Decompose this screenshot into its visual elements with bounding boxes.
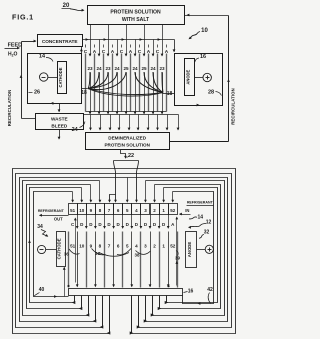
- svg-text:26: 26: [34, 90, 40, 96]
- svg-text:25: 25: [123, 66, 129, 71]
- wire: product line 22 to bottom unit: [121, 150, 127, 159]
- svg-text:12: 12: [206, 219, 212, 225]
- svg-text:RECIRCULATION: RECIRCULATION: [230, 88, 235, 125]
- enclosure: anode compartment: [175, 54, 223, 107]
- svg-text:24: 24: [96, 66, 102, 71]
- wires: concentrate feed arrows into compartments: [98, 40, 155, 57]
- label 18 (left): [81, 90, 87, 96]
- enclosure: cathode compartment: [28, 54, 82, 105]
- box: concentrate: [38, 35, 83, 47]
- svg-text:23: 23: [159, 66, 165, 71]
- junction dot right of manifold: [167, 285, 169, 287]
- svg-text:REFRIGERANT: REFRIGERANT: [38, 209, 65, 213]
- wire: right recirculation riser: [227, 16, 230, 142]
- wire: catholyte return up into cell 51: [74, 218, 77, 283]
- wire: riser into cathode box bottom: [63, 267, 66, 297]
- label 26 with leader: [29, 90, 41, 96]
- wire: membrane end bus: [86, 111, 167, 113]
- box: protein solution with salt: [88, 6, 185, 25]
- svg-text:4: 4: [135, 244, 138, 249]
- label 38: [135, 253, 140, 258]
- svg-text:9: 9: [90, 244, 93, 249]
- wire: recirculation return into protein box (right): [185, 14, 229, 17]
- svg-text:CATHODE: CATHODE: [57, 238, 62, 259]
- svg-text:14: 14: [39, 54, 46, 60]
- svg-text:10: 10: [201, 28, 208, 34]
- svg-text:16: 16: [200, 54, 206, 60]
- svg-text:6: 6: [117, 244, 120, 249]
- svg-text:40: 40: [39, 287, 45, 293]
- svg-text:H2O: H2O: [8, 52, 18, 58]
- svg-text:16: 16: [188, 289, 194, 295]
- bottom manifold box: [69, 289, 183, 296]
- label FEED H2O: [8, 43, 22, 58]
- svg-text:38: 38: [135, 253, 140, 258]
- label 36 (middle): [95, 251, 100, 256]
- wire: recirculation into waste bleed: [22, 118, 36, 120]
- label 16 with leader (top): [195, 54, 206, 62]
- winding flow arrow (left side): [28, 240, 31, 243]
- label REFRIGERANT OUT with arrow: [38, 209, 69, 221]
- wire: waste outlet arrow: [58, 130, 61, 140]
- svg-text:2: 2: [153, 244, 156, 249]
- label 12 with squiggle (unit designator): [188, 219, 211, 228]
- svg-text:24: 24: [114, 66, 120, 71]
- wires: winding downturns onto cell tops: [71, 178, 174, 203]
- svg-text:BLEED: BLEED: [51, 123, 68, 128]
- wire: cathode lead: [48, 77, 58, 79]
- label 16 with leader (bottom): [184, 289, 194, 295]
- svg-text:8: 8: [99, 244, 102, 249]
- label 20 with leader to feed arrow: [62, 3, 85, 11]
- svg-text:PROTEIN SOLUTION: PROTEIN SOLUTION: [104, 143, 150, 148]
- electrode box CATHODE (bottom): [57, 232, 66, 267]
- svg-text:18: 18: [167, 91, 173, 97]
- wire: feed arrow: [5, 47, 21, 50]
- label 40 with leader: [34, 287, 44, 296]
- label 14 with squiggle (bottom): [189, 214, 203, 220]
- svg-text:34: 34: [37, 224, 43, 230]
- wire: anode lead: [195, 77, 204, 79]
- svg-text:FIG.1: FIG.1: [12, 13, 34, 22]
- label RECIRCULATION (right): [230, 88, 235, 125]
- label REFRIGERANT IN with arrow: [179, 200, 214, 215]
- svg-text:14: 14: [198, 214, 204, 220]
- svg-text:42: 42: [207, 287, 213, 293]
- box: demineralized protein solution: [86, 133, 170, 150]
- wires: protein feed drops with arrows into compartments: [86, 25, 164, 57]
- svg-text:28: 28: [208, 90, 214, 96]
- svg-text:36: 36: [64, 252, 69, 257]
- wire: bottom anode lead: [197, 249, 206, 251]
- svg-text:36: 36: [95, 251, 100, 256]
- terminal circle plus (top anode): [203, 73, 211, 81]
- svg-text:32: 32: [204, 230, 210, 236]
- wire: left recirculation loop: [20, 40, 37, 119]
- svg-text:ANODE: ANODE: [186, 70, 191, 85]
- wires: compartment outlet lines to bus: [89, 73, 164, 115]
- svg-text:IN: IN: [185, 208, 189, 213]
- svg-text:RECIRCULATION: RECIRCULATION: [7, 90, 12, 127]
- svg-text:51: 51: [70, 244, 76, 249]
- compartment numbers 23/24/25: [87, 66, 165, 71]
- label 28 with leader: [208, 90, 222, 96]
- svg-text:PROTEIN SOLUTION: PROTEIN SOLUTION: [110, 9, 161, 15]
- svg-text:DEMINERALIZED: DEMINERALIZED: [108, 136, 146, 141]
- label 34 with zigzag leader: [37, 224, 49, 238]
- svg-text:10: 10: [79, 208, 85, 213]
- svg-text:24: 24: [132, 66, 138, 71]
- label RECIRCULATION (left): [7, 90, 12, 127]
- svg-text:51: 51: [70, 208, 76, 213]
- electrode box ANODE (top): [185, 59, 195, 96]
- svg-text:FEED: FEED: [8, 43, 22, 49]
- figure title FIG.1: [12, 13, 34, 22]
- svg-text:REFRIGERANT: REFRIGERANT: [187, 200, 214, 204]
- label 22 (top): [127, 153, 135, 159]
- wire: collection bus: [84, 114, 179, 116]
- label 39 with leader: [175, 251, 180, 261]
- svg-text:ANODE: ANODE: [187, 242, 192, 258]
- electrode box ANODE (bottom): [186, 232, 197, 268]
- svg-text:WASTE: WASTE: [51, 117, 68, 122]
- cell passage letters C/D/A: [71, 222, 175, 227]
- channel lines down to bottom manifold: [69, 232, 178, 288]
- wire: bottom cathode lead: [46, 249, 57, 251]
- channel numbers row (51..52): [70, 244, 176, 249]
- svg-text:24: 24: [150, 66, 156, 71]
- terminal circle plus (bottom anode): [205, 245, 213, 253]
- svg-text:3: 3: [144, 244, 147, 249]
- box: waste bleed: [36, 114, 84, 130]
- wire: anolyte drop into anode enclosure: [173, 40, 176, 53]
- hairpin connectors 36/38: [69, 249, 151, 257]
- svg-text:1: 1: [162, 244, 165, 249]
- junction dot left of manifold: [67, 285, 69, 287]
- label 18 (right): [167, 91, 173, 97]
- wire: left 18 stub into cathode enclosure: [82, 88, 88, 90]
- svg-text:52: 52: [170, 208, 176, 213]
- wires: arrows from bus into demineralized box: [89, 115, 179, 131]
- svg-text:CONCENTRATE: CONCENTRATE: [42, 39, 78, 44]
- label 24 with leader: [72, 122, 85, 133]
- wire: concentrate return riser: [80, 47, 83, 54]
- wire: anolyte return up into cell 52: [175, 217, 178, 286]
- svg-text:CATHODE: CATHODE: [58, 67, 63, 87]
- terminal circle minus (top cathode): [40, 73, 48, 81]
- membranes C/A with labels (stack): [84, 45, 169, 112]
- svg-text:22: 22: [128, 153, 134, 159]
- outer windings 1-3 (full loops): [13, 169, 236, 334]
- svg-text:5: 5: [126, 244, 129, 249]
- svg-text:7: 7: [108, 244, 111, 249]
- svg-text:WITH SALT: WITH SALT: [122, 17, 150, 23]
- cell row boxes 51,10,9..1,52: [69, 204, 178, 215]
- svg-text:OUT: OUT: [54, 216, 63, 221]
- label 32 with squiggle leader: [199, 230, 209, 239]
- top manifold of unit: [108, 161, 138, 203]
- svg-text:23: 23: [105, 66, 111, 71]
- wire: right 18 stub into anode enclosure: [163, 93, 175, 95]
- svg-text:18: 18: [81, 90, 87, 96]
- wire: demineralized box to right riser: [170, 141, 229, 143]
- svg-text:10: 10: [79, 244, 85, 249]
- svg-text:23: 23: [87, 66, 93, 71]
- terminal circle minus (bottom cathode): [38, 245, 46, 253]
- wire: concentrate distribution bus: [83, 39, 175, 41]
- electrode box CATHODE (top): [58, 62, 67, 94]
- label 36 (left): [64, 252, 69, 257]
- label 14 with leader: [39, 54, 53, 62]
- innermost winding to cells 51/52: [34, 192, 214, 305]
- svg-text:52: 52: [170, 244, 176, 249]
- wires: manifold wraps into winding bottoms: [72, 296, 168, 335]
- inner windings 4-6 (broken at cell feeds): [23, 181, 225, 316]
- svg-text:25: 25: [141, 66, 147, 71]
- fan curves to collection points 18: [88, 72, 163, 96]
- svg-text:39: 39: [175, 256, 180, 261]
- wire: waste line into waste bleed box: [58, 104, 61, 113]
- label 42 with leader: [207, 287, 213, 304]
- label 10 with squiggle leader: [188, 28, 209, 40]
- wires: downward arrows between cells: [76, 215, 170, 229]
